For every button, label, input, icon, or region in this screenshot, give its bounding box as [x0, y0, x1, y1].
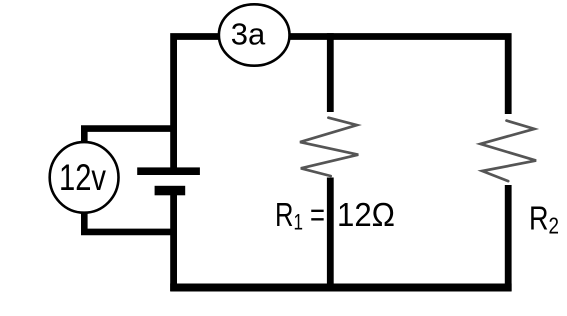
wire source branch top — [84, 129, 173, 142]
wire R1 branch upper — [327, 33, 334, 112]
svg-text:3a: 3a — [231, 17, 266, 52]
wire battery to bottom — [170, 195, 177, 291]
resistor R1 zigzag — [300, 118, 358, 176]
ammeter circle — [219, 4, 290, 65]
svg-text:12Ω: 12Ω — [337, 196, 395, 233]
battery B1 top plate — [137, 167, 200, 175]
wire top-left segment — [174, 37, 222, 172]
wire R1 branch lower — [327, 178, 334, 292]
battery B1 bottom plate — [155, 186, 186, 196]
wire top-right segment to R2 corner — [287, 37, 508, 115]
wire source branch bottom — [84, 214, 173, 232]
wire R2 branch lower — [505, 185, 512, 291]
voltage source circle — [50, 142, 119, 213]
wire bottom — [170, 284, 511, 292]
svg-text:12v: 12v — [59, 157, 106, 198]
resistor R2 zigzag — [480, 121, 536, 182]
